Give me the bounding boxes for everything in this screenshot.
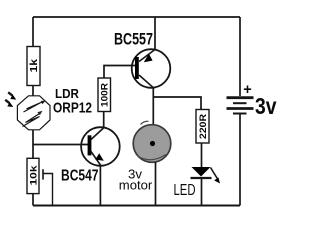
- svg-text:+: +: [243, 82, 251, 98]
- resistor R4 220R: [196, 110, 209, 144]
- transistor Q2 BC557 body: [132, 49, 171, 88]
- LED D1 emission arrow: [211, 168, 218, 179]
- svg-text:10k: 10k: [28, 165, 39, 186]
- Q1 emitter line: [91, 152, 101, 166]
- Q1 emitter arrow: [95, 153, 104, 161]
- LDR zigzag arrow upper: [24, 102, 43, 112]
- svg-text:BC557: BC557: [114, 30, 153, 49]
- wire Q2 emitter to top rail: [154, 17, 156, 49]
- svg-text:220R: 220R: [198, 114, 209, 139]
- LDR ORP12 body: [17, 96, 50, 130]
- battery B1 plate long 2: [227, 107, 254, 110]
- wire LED to bottom rail: [201, 179, 203, 206]
- wire motor to bottom rail: [155, 162, 157, 206]
- svg-text:ORP12: ORP12: [53, 99, 92, 116]
- svg-text:motor: motor: [119, 178, 153, 193]
- wire battery to bottom rail: [239, 115, 241, 206]
- wire R1 to LDR: [32, 86, 34, 97]
- Q2 emitter line: [139, 50, 155, 62]
- wire node B to R4: [153, 97, 201, 110]
- svg-text:BC547: BC547: [61, 168, 99, 185]
- wire left vertical from top rail to R1: [32, 17, 34, 47]
- LED D1 cathode bar: [191, 177, 212, 179]
- motor M1 body: [133, 125, 171, 163]
- motor M1 shaft dot: [150, 141, 155, 146]
- wire LDR to node A: [32, 130, 34, 159]
- wire top rail: [33, 16, 240, 18]
- svg-text:100R: 100R: [100, 83, 111, 107]
- motor M1 sketch stroke: [137, 155, 166, 160]
- Q1 base bar: [88, 135, 92, 155]
- Q2 collector line: [139, 75, 154, 88]
- wire R3 to bottom rail: [32, 194, 34, 206]
- wire top rail to battery: [239, 17, 241, 96]
- wire R4 to LED: [201, 143, 203, 167]
- svg-text:3v: 3v: [255, 93, 277, 119]
- wire Q1 collector to R2: [103, 112, 105, 128]
- Q1 collector line: [91, 128, 104, 140]
- LED D1 triangle: [192, 167, 211, 177]
- wire R2 to Q2 base: [104, 66, 135, 79]
- resistor R1 1k: [27, 47, 40, 86]
- resistor R3 10k: [27, 158, 39, 193]
- wire node A to Q1 base: [33, 144, 88, 146]
- light arrow 2: [5, 100, 9, 103]
- svg-text:1k: 1k: [28, 59, 40, 73]
- light arrow 1: [8, 92, 12, 95]
- battery B1 plate short 1: [233, 102, 247, 104]
- battery B1 plate short 2: [233, 113, 247, 115]
- bottom rail: [33, 205, 240, 207]
- wire Q2 collector to node B: [152, 88, 154, 125]
- svg-text:LED: LED: [174, 182, 196, 199]
- Q2 base bar: [135, 57, 139, 79]
- transistor Q1 BC547 body: [81, 127, 120, 166]
- R3 wiper tap: [42, 169, 44, 179]
- Q2 emitter arrow: [144, 54, 153, 63]
- wire Q1 emitter to bottom rail: [99, 166, 101, 206]
- resistor R2 100R: [98, 78, 111, 112]
- battery B1 plate long 1: [227, 96, 254, 99]
- LDR zigzag arrow lower: [23, 113, 41, 126]
